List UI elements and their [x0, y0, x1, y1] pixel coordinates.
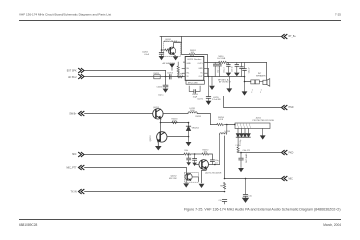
capacitor C0276 (chain bottom) [222, 200, 226, 204]
svg-text:C0r 10: C0r 10 [232, 67, 234, 72]
svg-text:U0251 Number: U0251 Number [187, 58, 201, 61]
wire EXT_SPK corner down [165, 71, 167, 86]
node junction fuse input [234, 124, 236, 126]
wire Q0261 collector up and over [174, 43, 182, 48]
svg-text:C0p .1: C0p .1 [217, 68, 219, 73]
node junction accessory/inductor [226, 124, 228, 126]
ground (mid drop below rail) [228, 77, 230, 89]
pin OUT1 stub right [204, 62, 205, 64]
svg-text:.01uF: .01uF [144, 54, 150, 56]
svg-text:R0255: R0255 [196, 116, 202, 118]
inductor L0253 [220, 125, 227, 165]
svg-text:C0r: C0r [218, 199, 221, 202]
ground (cap C0258, on rail) [226, 73, 232, 77]
resistor R0251 (series input, box style) [154, 75, 160, 79]
wire Q0251 emitter down [160, 118, 162, 122]
ground (Q0261 emitter) [174, 54, 176, 55]
header rule [19, 20, 341, 22]
wire bead to accessory riser [197, 114, 210, 125]
wire Q0271 base [196, 164, 199, 166]
svg-text:MIC BIAS: MIC BIAS [245, 153, 248, 162]
svg-text:HSD: HSD [289, 107, 294, 109]
wire down to Q0253 [160, 123, 162, 133]
wire OUT2 rail [205, 76, 245, 78]
svg-text:MIC: MIC [289, 178, 294, 180]
svg-text:OUT: OUT [199, 76, 204, 78]
pin 3 stub left [182, 72, 185, 74]
wire bias line [161, 122, 189, 124]
node junction MIC line / C0277 [245, 178, 247, 180]
node junction PKD [240, 152, 242, 154]
ground (C0277 chain, big) [242, 198, 249, 203]
svg-text:1: 1 [252, 90, 253, 92]
capacitor C0266 (Vs decoupling) [206, 77, 210, 102]
ground (Q0271 emitter) [199, 184, 205, 188]
wire accessory audio line [211, 124, 236, 126]
ground (Q0253 emitter, big) [157, 142, 159, 147]
svg-text:MIC: MIC [72, 154, 77, 156]
capacitor C0267 (PKD to gnd) [239, 153, 243, 168]
svg-text:SW B+: SW B+ [69, 113, 77, 115]
capacitor C0260 (rail bank) [240, 63, 244, 77]
svg-text:C0j 1u: C0j 1u [158, 95, 163, 97]
wire AF_PA_2 horizontal [85, 76, 186, 78]
capacitor C0256 (rail bank) [213, 63, 217, 77]
node PKD (right off-page connector) [282, 150, 294, 154]
wire B+ rail horizontal [160, 36, 282, 38]
ground (cap C0259, on rail) [234, 73, 240, 77]
ferrite bead L0251 on line [188, 112, 197, 114]
node EXT_SPKR (left off-page connector) [67, 68, 84, 72]
wire feedback loop below IC [189, 86, 200, 91]
svg-text:2: 2 [251, 92, 252, 94]
svg-text:L0253: L0253 [225, 131, 231, 133]
svg-text:5-1/8: 5-1/8 [219, 119, 224, 121]
ground (OUT2 side) [211, 77, 213, 86]
net arrow down (Vs chain) [206, 101, 212, 105]
svg-text:2.2uH FB: 2.2uH FB [212, 99, 221, 101]
resistor R0257 (bias chain) [237, 137, 239, 152]
capacitor C0277 (mic line bypass) [243, 179, 247, 198]
svg-text:PKD: PKD [289, 153, 294, 155]
svg-text:MIC_PTT: MIC_PTT [67, 168, 78, 170]
svg-text:VR0252: VR0252 [192, 127, 200, 129]
resistor R0274 (mic ext chain) [223, 183, 225, 190]
transistor Q0253 [157, 132, 167, 142]
speaker LS0251 [263, 79, 270, 87]
svg-text:C0253: C0253 [167, 73, 174, 75]
node MIC_PTT (left off-page connector) [67, 165, 84, 169]
node HSD (right off-page connector) [282, 105, 294, 109]
wire OUT2 drop to speaker line [245, 77, 251, 82]
wire SW_B+ horizontal [85, 113, 153, 115]
svg-text:GND: GND [187, 63, 192, 65]
svg-text:100K: 100K [172, 121, 177, 123]
svg-text:1: 1 [261, 90, 262, 92]
node junction diode [188, 122, 190, 124]
svg-text:Figure 7-25. VHF 136-174 MHz: Figure 7-25. VHF 136-174 MHz Audio PA an… [184, 208, 341, 212]
net arrow AF_SHUTOFF down [169, 64, 175, 68]
ground (PKD chain) [238, 168, 244, 172]
wire MIC_EXT horizontal [225, 178, 282, 180]
node AF_PA_2 (left off-page connector) [68, 74, 84, 79]
svg-text:C0251: C0251 [157, 87, 164, 89]
wire Q0252 collector right [190, 172, 198, 176]
resistor R0261 [189, 53, 195, 55]
net arrow down (speaker return) [244, 82, 246, 92]
wire Q0252 base entry [186, 173, 188, 175]
capacitor C0273 (MIC shunt 1) [187, 154, 191, 162]
resistor R0252 (series on input line) [177, 76, 183, 78]
node SW_B+ (left off-page connector) [69, 111, 84, 115]
svg-text:PROTECTED BY FUSE: PROTECTED BY FUSE [253, 120, 275, 122]
connector J0251 speaker plug [251, 80, 263, 84]
svg-text:C0q .1: C0q .1 [223, 68, 225, 73]
svg-text:C0271: C0271 [197, 99, 204, 101]
svg-text:MIC SW: MIC SW [169, 178, 177, 180]
wire EXT_SPKR horizontal [85, 70, 166, 72]
footer rule [19, 219, 341, 221]
svg-text:Q0271 2SC3225R: Q0271 2SC3225R [205, 172, 222, 174]
transistor Q0271 [199, 160, 209, 170]
IC U0251 audio PA [185, 57, 204, 81]
svg-text:8F52 47M: 8F52 47M [188, 83, 198, 85]
wire HSD horizontal with riser [224, 96, 282, 107]
wire OUT1 rail [205, 62, 267, 64]
svg-text:Q0253: Q0253 [150, 135, 152, 142]
diode D0254 (ESD, drop 4) [247, 129, 251, 138]
svg-text:AF CNTRL 5T: AF CNTRL 5T [219, 81, 232, 84]
svg-text:IN: IN [187, 76, 190, 78]
transistor Q0251 [153, 109, 163, 119]
capacitor C0252 (series on input line) [169, 75, 171, 79]
svg-text:EXT SPK: EXT SPK [67, 70, 77, 72]
capacitor C0251 (to ground) [163, 85, 168, 87]
wire Q0251 collector right [160, 109, 162, 113]
capacitor C0258 (rail bank) [227, 63, 231, 73]
wire MIC_PTT horizontal then down to Q0252 [85, 168, 187, 174]
capacitor C0270 (speaker column) [243, 63, 247, 77]
pin OUT2 stub right [204, 76, 205, 78]
svg-text:AUDIO PA SW: AUDIO PA SW [164, 40, 177, 43]
node junction EXT_SPK riser [165, 76, 167, 78]
dashed box Q0252 [184, 172, 198, 182]
node junction Q0253 collector [188, 136, 190, 138]
net arrow down (fuse output) [262, 129, 264, 136]
node junction TX line end [224, 191, 226, 193]
ground (zener chain) [188, 137, 190, 142]
node junction emitter/base net [160, 122, 162, 124]
node junction B+/C0262 [161, 49, 163, 51]
svg-text:SPEAKER: SPEAKER [256, 74, 266, 77]
resistor R0253 on bias line [172, 122, 178, 124]
node MIC_EXT (right off-page connector) [282, 176, 294, 180]
wire Q0271 emitter down [202, 169, 207, 183]
diode D0253 (ESD, drop 3) [243, 129, 247, 138]
resistor R0272 on MIC line [202, 153, 209, 155]
dashed box Q0261 audio PA switch [164, 42, 181, 57]
transistor Q0261 [168, 47, 176, 55]
svg-text:IN-: IN- [187, 68, 190, 70]
node MIC (left off-page connector) [72, 152, 84, 156]
svg-text:GND: GND [198, 68, 203, 70]
svg-text:OUT1: OUT1 [198, 63, 203, 65]
svg-text:Vs: Vs [200, 72, 202, 74]
svg-text:6881089C28: 6881089C28 [19, 223, 37, 227]
svg-text:100p: 100p [240, 140, 242, 144]
wire MIC line corner down [209, 154, 213, 160]
svg-text:TX IN: TX IN [71, 191, 77, 193]
node junction MIC line [194, 153, 196, 155]
ground (Q0252 emitter) [183, 183, 189, 187]
wire Q0253 collector to zener node [165, 130, 172, 132]
pin 2 stub left [183, 61, 185, 63]
svg-text:R0t: R0t [220, 185, 223, 188]
capacitor C0262 [159, 50, 163, 56]
wire MIC horizontal [85, 154, 185, 156]
pin GND stub right [204, 68, 209, 70]
node TX_IN (left off-page connector) [71, 189, 84, 193]
transistor Q0252 [185, 173, 192, 180]
capacitor C0255 (feedback) [194, 90, 196, 93]
ground (below C0251) [163, 89, 169, 93]
svg-text:C0s 47: C0s 47 [248, 68, 250, 74]
svg-text:RT_B+: RT_B+ [289, 36, 297, 38]
svg-text:VHF 136-174 MHz Circuit Board/: VHF 136-174 MHz Circuit Board/Schematic … [19, 13, 111, 17]
wire TX_IN horizontal [85, 191, 225, 193]
svg-text:C0v: C0v [249, 196, 252, 198]
capacitor C0259 (rail bank) [235, 63, 239, 73]
ferrite bead FB0251 [219, 61, 228, 63]
capacitor C0272 (coupling to Q0271) [210, 160, 214, 165]
diode D0252 (ESD, drop 2) [240, 129, 244, 138]
resistor R0256 on accessory line [217, 123, 224, 125]
wire Q0271 collector to rail [206, 158, 214, 160]
svg-text:March, 2004: March, 2004 [323, 223, 341, 227]
connector J0251 protected by fuse [235, 123, 270, 129]
wire R0261 to VS rail [195, 55, 207, 63]
svg-text:IN+: IN+ [187, 72, 191, 74]
pin 4 stub left [182, 68, 185, 70]
svg-text:C0k 471: C0k 471 [243, 150, 251, 152]
resistor R0271 on MIC line [184, 153, 191, 155]
svg-text:E-COSB: E-COSB [218, 58, 226, 60]
wire PKD horizontal [242, 152, 282, 154]
resistor R0262 [165, 49, 171, 51]
svg-text:Q0251: Q0251 [153, 107, 160, 109]
wire B+ drop to audio PA switch [161, 37, 163, 51]
svg-text:AF PA 2: AF PA 2 [68, 76, 77, 79]
pin VS stub right [204, 72, 208, 74]
node junction OUT2/speaker [244, 76, 246, 78]
wire OUT1 drop to speaker [266, 63, 268, 81]
IC part number sub-box [186, 80, 204, 84]
ground (GND pin chain) [208, 69, 210, 77]
wire switched B+ drop [182, 37, 190, 55]
ground (below C0262) [159, 56, 165, 60]
svg-text:7-25: 7-25 [335, 13, 341, 17]
svg-text:2: 2 [260, 92, 261, 94]
svg-text:R0254: R0254 [177, 73, 184, 75]
wire Q0252 emitter down [185, 180, 187, 182]
wire base feed [162, 49, 165, 51]
resistor R0263 vertical [177, 66, 179, 77]
node RT_B+ (right off-page connector) [282, 34, 297, 38]
svg-text:R0251: R0251 [154, 73, 161, 75]
diode D0251 (ESD, drop 1) [236, 129, 240, 138]
svg-text:R0k: R0k [185, 150, 188, 152]
node junction MIC_EXT chain [224, 178, 226, 180]
wire rail down (ext mic net) [224, 136, 226, 179]
capacitor C0274 (MIC shunt 2) [193, 154, 197, 162]
zener VR0251 [186, 123, 190, 137]
capacitor C0257 (rail bank) [218, 63, 222, 77]
